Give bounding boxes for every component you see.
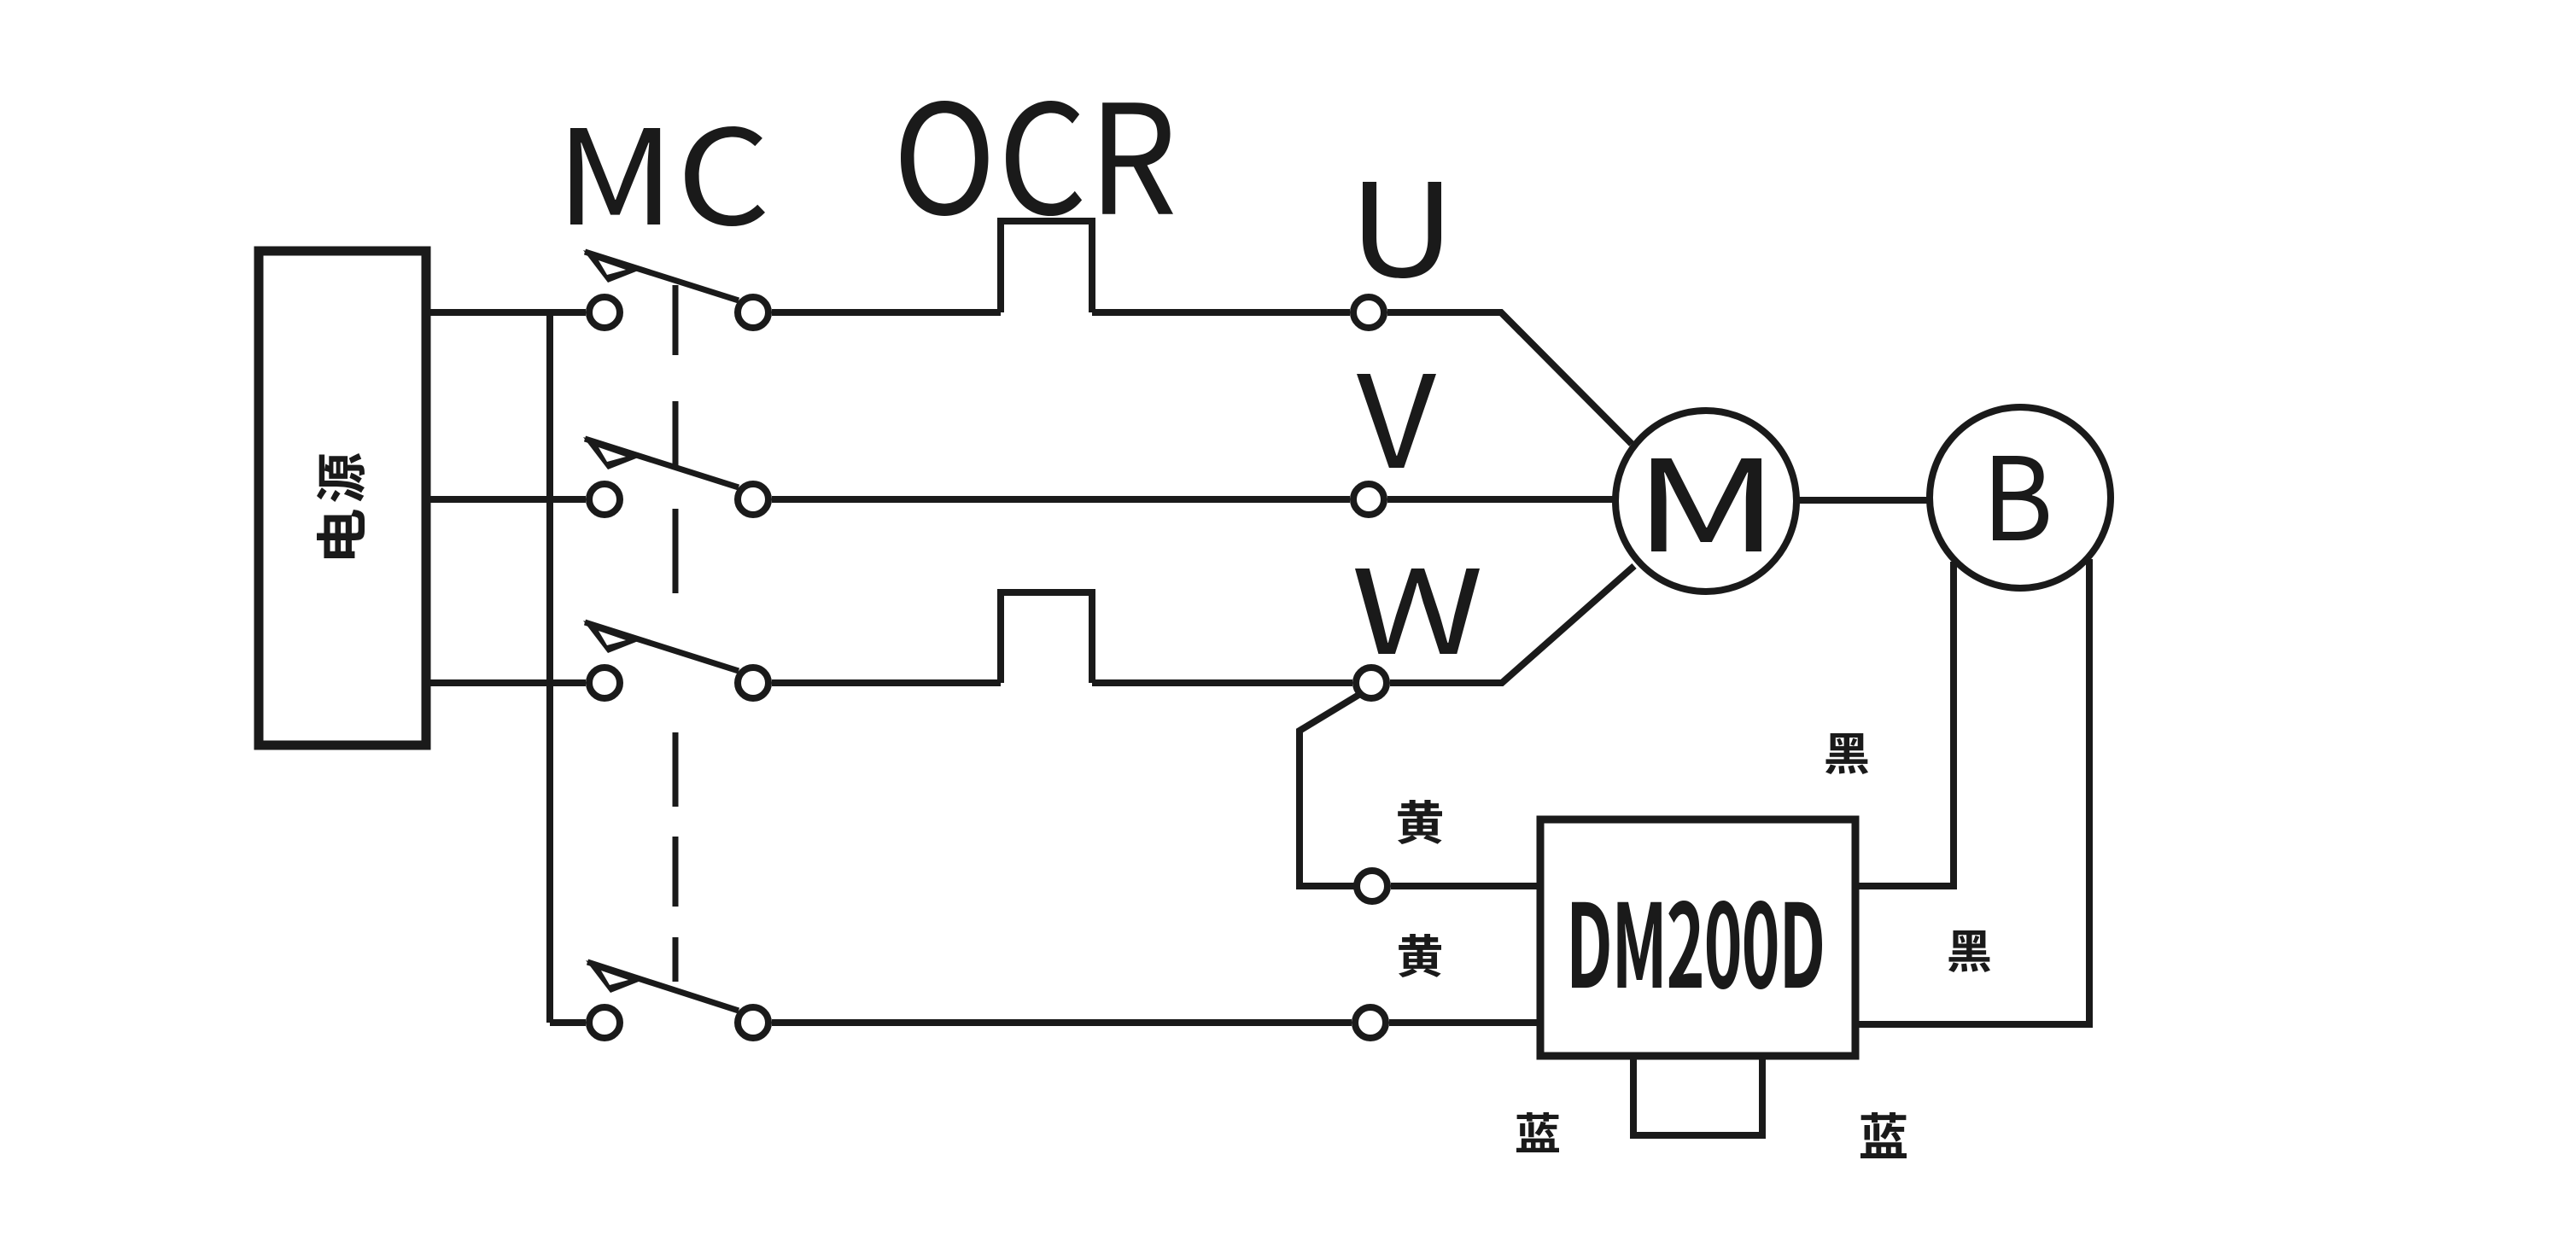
motor letter M (1651, 458, 1761, 551)
terminal V circle (1353, 484, 1384, 515)
label 蓝 (blue) left (1516, 1112, 1559, 1152)
wire: brake B black lead 2 (right vertical to DM200D) (1855, 559, 2089, 1024)
power source box (259, 251, 426, 745)
MC pole 4 right terminal (738, 1007, 768, 1038)
wire: source to MC pole 3 (426, 679, 586, 686)
wire: MC pole 4 to yellow lead terminal 2 (772, 1019, 1352, 1026)
power source label 电 (rotated) (317, 510, 365, 558)
wire: OCR heater 2 to terminal W (1092, 679, 1352, 686)
OCR heater element 1 (1001, 221, 1092, 312)
wire: vertical bus from phase 1 down to pole 4 (546, 309, 553, 1023)
label 黄 (yellow) upper (1398, 800, 1442, 844)
label 黑 (black) lower (1948, 930, 1990, 972)
wire: terminal V to motor M (1387, 496, 1617, 503)
wire: yellow lead 1 to DM200D (1391, 883, 1540, 889)
MC pole 3 moving contact (arrow arm) (585, 622, 739, 671)
label U (1363, 182, 1441, 278)
OCR heater element 2 (1001, 592, 1092, 683)
label 黄 (yellow) lower (1399, 934, 1441, 977)
wire: terminal W tap down to yellow lead terminal (1300, 694, 1360, 886)
motor M circle (1615, 411, 1796, 592)
MC pole 3 right terminal (738, 668, 768, 698)
DM200D bottom tab (blue lead terminals) (1633, 1056, 1762, 1135)
wire: MC pole 3 to OCR heater 2 (772, 679, 1001, 686)
wire: motor M to brake B (1796, 497, 1931, 504)
terminal U circle (1353, 297, 1384, 328)
MC pole 2 left terminal (589, 484, 620, 515)
brake B circle (1930, 407, 2111, 588)
wire: source to MC pole 2 (426, 496, 586, 503)
MC pole 4 left terminal (589, 1007, 620, 1038)
wire: MC pole 2 to terminal V (772, 496, 1350, 503)
MC pole 1 moving contact (arrow arm) (585, 252, 739, 300)
MC pole 4 moving contact (arrow arm) (587, 962, 739, 1011)
wire: MC pole 1 to OCR heater 1 (772, 309, 1001, 316)
wire: brake B black lead 1 (left vertical to DM200D) (1855, 562, 1954, 886)
MC pole 3 left terminal (589, 668, 620, 698)
wire: bus corner to MC pole 4 (550, 1019, 586, 1026)
wire: source to MC pole 1 (426, 309, 586, 316)
MC pole 2 moving contact (arrow arm) (585, 439, 739, 487)
label 蓝 (blue) right (1860, 1112, 1907, 1158)
wire: terminal U to motor M (1387, 312, 1632, 444)
brake rectifier DM200D box (1540, 819, 1855, 1056)
yellow lead terminal 2 (1355, 1007, 1386, 1038)
contactor MC mechanical linkage (dashed) (673, 285, 679, 355)
MC pole 1 right terminal (738, 297, 768, 328)
label V (1357, 374, 1436, 468)
label DM200D (1572, 901, 1822, 989)
wire: OCR heater 1 to terminal U (1092, 309, 1350, 316)
label 黑 (black) upper (1825, 733, 1868, 774)
wire: terminal W to motor M (1390, 566, 1634, 683)
brake letter B (1993, 456, 2048, 540)
MC pole 2 right terminal (738, 484, 768, 515)
label W (1355, 569, 1480, 654)
overcurrent relay label OCR (901, 101, 1173, 216)
MC pole 1 left terminal (589, 297, 620, 328)
power source label 源 (rotated) (317, 453, 365, 502)
terminal W circle (1356, 668, 1387, 698)
wire: yellow lead 2 to DM200D (1389, 1019, 1540, 1026)
contactor label MC (570, 126, 765, 226)
yellow lead terminal 1 (1357, 871, 1387, 901)
